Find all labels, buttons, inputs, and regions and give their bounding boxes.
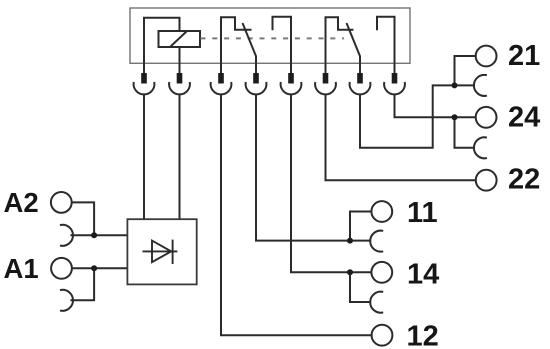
circle terminal 22	[476, 170, 497, 191]
plug terminal 6	[315, 63, 336, 94]
junction net 11	[347, 238, 353, 244]
wire net 21 (terminal 7 to fork 21)	[360, 85, 475, 147]
wire net 24 branch down to fork 24	[455, 117, 476, 148]
circle terminal 12	[372, 325, 393, 346]
wire net 14 (terminal 5 to circle 14)	[291, 94, 371, 272]
contact 1 common + NC fixed contact (terminal 3)	[221, 17, 252, 63]
plug terminal 1	[134, 63, 155, 94]
circle terminal 14	[371, 262, 392, 283]
svg-text:21: 21	[508, 40, 540, 72]
svg-text:A2: A2	[4, 187, 39, 218]
circle terminal 24	[476, 107, 497, 128]
circle terminal 11	[371, 201, 392, 222]
relay enclosure box K1	[130, 8, 410, 63]
contact 2 moving blade (terminal 7)	[347, 23, 361, 63]
wire net 14 branch down to fork 14	[350, 272, 371, 302]
wire net 22 (terminal 6 to circle 22)	[326, 94, 476, 180]
wire net 11 branch up to circle 11	[350, 212, 371, 241]
plug terminal 8	[384, 63, 405, 94]
junction net A1	[91, 265, 97, 271]
svg-text:22: 22	[508, 163, 540, 195]
plug terminal 2	[169, 63, 190, 94]
circle terminal A2	[51, 192, 72, 213]
contact 1 moving blade (terminal 4)	[243, 23, 257, 63]
plug terminal 3	[211, 63, 232, 94]
diode D1 triangle	[152, 241, 171, 263]
fork socket 21	[474, 75, 487, 96]
wire coil loop: terminal 1 up, across, terminal 2 down	[144, 18, 180, 64]
contact 2 common + NC fixed contact (terminal 6)	[326, 17, 354, 63]
wire net 11 (terminal 4 to socket 11)	[256, 94, 371, 240]
svg-text:24: 24	[508, 101, 540, 133]
fork socket 11	[370, 231, 383, 252]
wire terminal 2 to input module	[179, 94, 181, 219]
wire net 12 (terminal 3 to socket 12)	[221, 94, 372, 335]
svg-text:12: 12	[407, 321, 439, 349]
fork socket A1	[60, 290, 73, 311]
junction net 21	[452, 82, 458, 88]
wire fork A1 tail	[70, 268, 94, 300]
svg-text:11: 11	[407, 197, 438, 229]
svg-text:14: 14	[407, 258, 439, 290]
mechanical link (dashed)	[201, 37, 345, 39]
coil diagonal	[170, 31, 187, 47]
wire net 21 branch up to circle 21	[455, 56, 476, 85]
fork socket A2	[60, 225, 73, 246]
wire fork A2 tail	[70, 234, 94, 236]
junction net A2	[91, 232, 97, 238]
circle terminal 21	[476, 46, 497, 67]
wire terminal 1 to input module	[143, 94, 145, 219]
contact 2 NO fixed contact (terminal 8)	[377, 17, 395, 64]
input module box	[127, 219, 196, 284]
contact 1 NO fixed contact (terminal 5)	[273, 17, 292, 64]
fork socket 24	[474, 137, 487, 158]
svg-text:A1: A1	[4, 253, 39, 284]
wire net 24 (terminal 8 to circle 24)	[395, 94, 476, 117]
wire net A1 (circle A1 to module)	[72, 267, 128, 269]
plug terminal 7	[350, 63, 371, 94]
relay coil K1	[159, 31, 201, 47]
plug terminal 4	[246, 63, 267, 94]
circle terminal A1	[51, 258, 72, 279]
junction net 14	[347, 269, 353, 275]
junction net 24	[452, 114, 458, 120]
fork socket 14	[370, 292, 383, 313]
diode D1 cathode bar	[172, 240, 174, 264]
plug terminal 5	[281, 63, 302, 94]
wire net A2 (circle A2 to module)	[72, 202, 128, 235]
diode D1 through lead	[143, 250, 178, 252]
